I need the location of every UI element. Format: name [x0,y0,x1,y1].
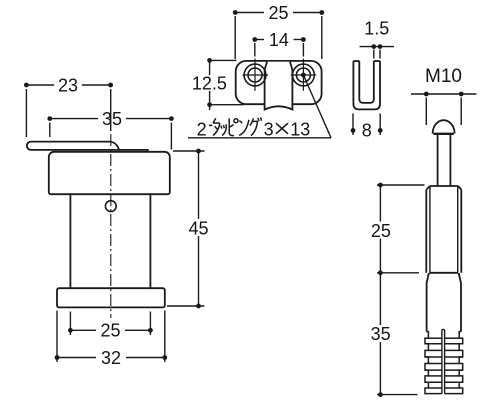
sleeve inner walls [430,186,458,273]
katakana N [239,120,249,136]
dimension 45 [167,151,205,306]
katakana HI + handakuten [229,118,238,135]
svg-text:M10: M10 [425,66,462,87]
stem left wall [69,194,71,288]
svg-text:35: 35 [371,324,391,344]
base plate [57,288,165,307]
anchor bolt dome head [433,120,455,134]
katakana KU + dakuten [250,117,262,135]
svg-text:8: 8 [362,121,372,141]
katakana small TSU [221,124,226,135]
ribbed fins right half [445,332,463,394]
svg-text:25: 25 [100,321,120,341]
lever bar (front view hook lever) [27,142,148,152]
svg-text:23: 23 [58,75,78,95]
cap (top body of door stop) [49,152,170,194]
svg-text:45: 45 [188,219,208,239]
right screw hole [293,64,315,86]
expansion body left edge [427,273,429,332]
dimension 35 [50,119,172,150]
svg-text:25: 25 [371,221,391,241]
bolt shaft [438,134,451,185]
expansion body right edge [459,273,461,332]
leader line to tapping screw note [188,75,331,138]
dimension 25 (plate width) [235,13,322,60]
dimension M10 [411,94,477,125]
rubber tongue of catch [265,62,293,110]
anchor sleeve top with chamfers [426,186,461,190]
multiplication sign [276,123,288,134]
screw hole circle on stem [105,201,116,212]
svg-text:32: 32 [101,348,121,368]
sleeve joint line [430,272,459,274]
dimension 1.5 (wall thickness) [360,47,395,59]
centerline of door stop [110,134,112,318]
stem right wall [149,194,151,288]
dimension 12.5 (plate height) [210,60,244,110]
svg-text:14: 14 [269,30,289,50]
note text: 2-tapping 3x13 [197,117,311,139]
svg-text:13: 13 [290,119,310,139]
dimension 8 (U width) [353,114,380,136]
svg-text:35: 35 [102,109,122,129]
U channel section view [353,61,380,109]
svg-text:12.5: 12.5 [192,73,227,93]
ribbed fins left half [425,332,442,394]
svg-text:1.5: 1.5 [364,19,389,39]
katakana TA [213,118,220,135]
hyphen [209,124,213,126]
sleeve outer walls [426,190,461,273]
wall catch plate (top view) [236,61,322,104]
svg-text:25: 25 [268,3,288,23]
dimension 14 (hole pitch) [255,40,304,57]
dimension 32 (base outer) [57,311,165,363]
center slot of anchor [442,329,445,393]
svg-text:2: 2 [197,119,207,139]
left screw hole [244,64,266,86]
dimension 23 [26,85,110,137]
dimension 25 / 35 (anchor lengths) [377,185,425,395]
dimension 25 (base inner) [70,312,150,336]
svg-text:3: 3 [264,119,274,139]
